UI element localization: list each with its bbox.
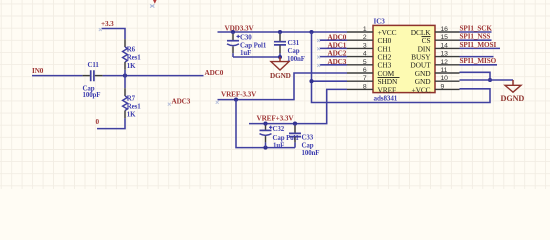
svg-text:5: 5 — [363, 59, 367, 66]
junction C32 top — [263, 122, 267, 126]
ground DGND (right) — [512, 80, 514, 85]
svg-text:SPI1_MOSI: SPI1_MOSI — [460, 41, 497, 49]
pin 6 stub (COM) — [347, 72, 373, 74]
wire pin 11 GND — [460, 72, 491, 80]
pin 2 stub (CH0) — [347, 39, 373, 41]
svg-text:C32: C32 — [273, 126, 285, 133]
svg-text:13: 13 — [441, 51, 449, 58]
pin 7 stub (SHDN) — [347, 80, 373, 82]
wire ADC1 to pin 3 — [320, 47, 347, 49]
pin 1 stub (+VCC) — [347, 31, 373, 33]
junction C32 bottom — [263, 146, 267, 150]
wire VREF+ rail (pin 8 VREF) — [249, 89, 347, 123]
svg-text:7: 7 — [363, 75, 367, 82]
wire R6 to node — [124, 62, 126, 70]
resistor R7 — [123, 96, 128, 111]
capacitor C33 — [294, 124, 296, 126]
svg-text:1: 1 — [363, 26, 367, 33]
no-ERC marker — [317, 64, 320, 67]
junction SHDN/feed — [309, 79, 313, 83]
pin 5 stub (CH3) — [347, 64, 373, 66]
ground DGND (middle) — [279, 57, 281, 62]
svg-text:R7: R7 — [127, 95, 136, 102]
junction VREF- / cap bottom feed — [234, 98, 238, 102]
svg-text:1K: 1K — [127, 63, 136, 70]
svg-text:3: 3 — [363, 42, 367, 49]
pin 3 stub (CH1) — [347, 47, 373, 49]
pin 10 stub (GND) — [435, 80, 460, 82]
svg-text:+VCC: +VCC — [412, 85, 431, 94]
svg-text:DGND: DGND — [270, 72, 291, 80]
svg-text:Cap: Cap — [288, 48, 300, 55]
wire +3.3 to R6 — [102, 29, 126, 40]
wire VDD3.3V rail to pin 1 — [218, 31, 348, 33]
wire R7 to net 0 — [124, 111, 126, 119]
svg-text:16: 16 — [441, 26, 449, 33]
no-ERC marker — [216, 101, 219, 104]
svg-text:DGND: DGND — [501, 94, 525, 103]
svg-text:10: 10 — [441, 75, 449, 82]
svg-text:VREF-3.3V: VREF-3.3V — [221, 91, 257, 99]
svg-text:ADC1: ADC1 — [328, 42, 347, 50]
pin 8 stub (VREF) — [347, 88, 373, 90]
wire IN0 to C11 — [32, 75, 83, 77]
svg-text:C11: C11 — [88, 62, 100, 69]
pin 4 stub (CH2) — [347, 56, 373, 58]
cursor mark — [153, 0, 157, 4]
wire SPI1_MOSI pin 14 — [460, 47, 501, 49]
capacitor C11 — [91, 70, 94, 81]
svg-text:SPI1_SCK: SPI1_SCK — [460, 24, 493, 32]
svg-text:R6: R6 — [127, 47, 136, 54]
svg-text:Res1: Res1 — [127, 55, 141, 62]
pin 13 stub (BUSY) — [435, 56, 460, 58]
svg-text:2: 2 — [363, 34, 367, 41]
wire ADC0 to pin 2 — [320, 39, 347, 41]
no-ERC marker — [317, 39, 320, 42]
svg-text:Cap Pol1: Cap Pol1 — [240, 43, 267, 50]
wire node to R7 — [124, 76, 126, 89]
node junction (C11/R6/R7/ADC0) — [123, 74, 127, 78]
svg-text:ADC0: ADC0 — [328, 33, 347, 41]
junction VDD/C31 — [278, 30, 282, 34]
pin 11 stub (GND) — [435, 72, 460, 74]
svg-text:8: 8 — [363, 83, 367, 90]
pin 12 stub (DOUT) — [435, 64, 460, 66]
wire pin 10 GND to DGND — [460, 79, 514, 81]
svg-text:1uF: 1uF — [240, 50, 251, 57]
wire SHDN pin 7 / VDD down-feed / under-route to pin 9 — [312, 32, 491, 103]
no-ERC marker — [317, 47, 320, 50]
svg-text:Res1: Res1 — [127, 104, 141, 111]
svg-text:ads8341: ads8341 — [374, 94, 398, 102]
svg-text:11: 11 — [441, 67, 448, 74]
svg-text:C30: C30 — [240, 35, 252, 42]
wire VREF-3.3V to pin 6 (COM) — [218, 73, 348, 100]
wire SPI1_SCK pin 16 — [460, 31, 492, 33]
svg-text:1K: 1K — [127, 112, 136, 119]
wire ADC3 to pin 5 — [320, 64, 347, 66]
svg-text:14: 14 — [441, 42, 449, 49]
wire pin 13 BUSY (unlabeled) — [460, 56, 494, 58]
svg-text:+3.3: +3.3 — [101, 20, 114, 28]
pin 9 stub (+VCC) — [435, 88, 460, 90]
pin 14 stub (DIN) — [435, 47, 460, 49]
svg-text:ADC0: ADC0 — [205, 69, 224, 77]
junction VDD/down-feed — [309, 30, 313, 34]
capacitor C31 — [279, 32, 281, 34]
svg-text:C31: C31 — [288, 40, 300, 47]
svg-text:1uF: 1uF — [273, 143, 284, 150]
svg-text:C33: C33 — [302, 135, 314, 142]
svg-text:ADC3: ADC3 — [172, 97, 191, 105]
svg-text:ADC2: ADC2 — [328, 50, 347, 58]
svg-text:100nF: 100nF — [302, 150, 320, 157]
svg-text:IC3: IC3 — [374, 17, 386, 25]
op-amp/ADC IC3 ads8341 body — [373, 25, 435, 92]
junction C33 top — [293, 122, 297, 126]
svg-text:VREF+3.3V: VREF+3.3V — [257, 115, 295, 123]
resistor R6 — [123, 47, 128, 62]
svg-text:VREF: VREF — [378, 85, 397, 94]
wire ADC2 to pin 4 — [320, 56, 347, 58]
svg-text:Cap: Cap — [302, 142, 314, 149]
wire VREF- down to cap bottom rail — [236, 100, 295, 148]
junction VDD/C30 — [231, 30, 235, 34]
no-ERC marker — [317, 56, 320, 59]
svg-text:0: 0 — [96, 118, 100, 126]
svg-text:SPI1_MISO: SPI1_MISO — [460, 57, 497, 65]
pin 16 stub (DCLK) — [435, 31, 460, 33]
pin 15 stub (CS) — [435, 39, 460, 41]
no-ERC marker — [99, 28, 102, 31]
SHDN overline — [378, 77, 400, 79]
svg-text:6: 6 — [363, 67, 367, 74]
wire SPI1_MISO pin 12 — [460, 64, 498, 66]
no-ERC marker — [168, 103, 171, 106]
svg-text:15: 15 — [441, 34, 449, 41]
svg-text:4: 4 — [363, 51, 367, 58]
svg-text:9: 9 — [441, 83, 445, 90]
junction GND pins 10/11 — [488, 78, 492, 82]
CS overline — [422, 36, 431, 38]
capacitor C30 (polarized) — [232, 32, 234, 34]
capacitor C32 (polarized) — [265, 124, 267, 126]
svg-text:12: 12 — [441, 59, 449, 66]
wire C11 to node — [95, 75, 103, 77]
wire SPI1_NSS pin 15 — [460, 39, 492, 41]
svg-text:SPI1_NSS: SPI1_NSS — [460, 33, 491, 41]
junction C31 bottom / DGND — [278, 55, 282, 59]
svg-text:ADC3: ADC3 — [328, 58, 347, 66]
svg-text:IN0: IN0 — [32, 67, 44, 75]
svg-text:100pF: 100pF — [83, 92, 101, 99]
wire C30 bottom to C31 bottom — [233, 56, 280, 58]
